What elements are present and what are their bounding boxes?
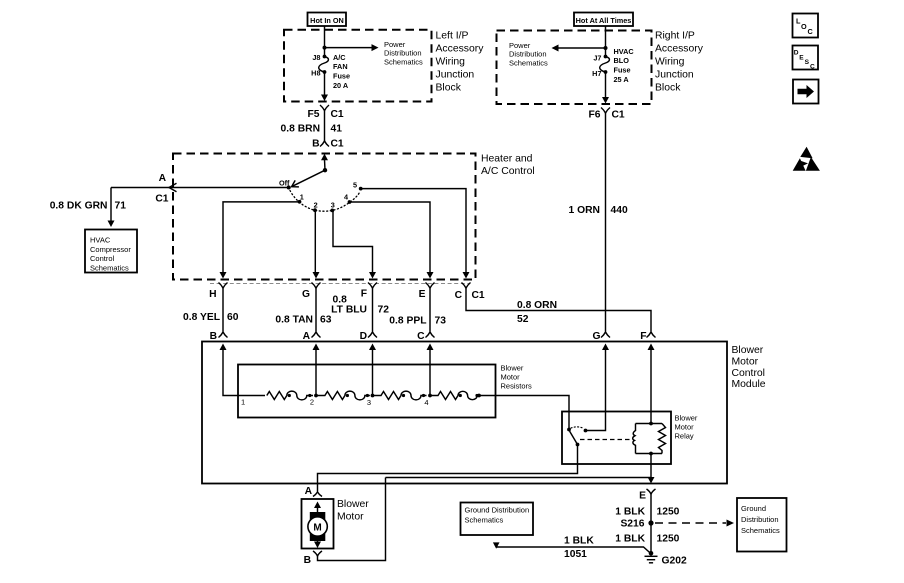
- svg-text:Hot In ON: Hot In ON: [310, 16, 344, 25]
- svg-text:Right I/PAccessoryWiringJuncti: Right I/PAccessoryWiringJunctionBlock: [655, 31, 704, 94]
- svg-text:GroundDistributionSchematics: GroundDistributionSchematics: [741, 504, 780, 535]
- wire branch to power distribution: [558, 47, 606, 49]
- wire from Hot In ON to fuse: [324, 26, 326, 57]
- svg-text:A: A: [303, 331, 311, 342]
- svg-text:4: 4: [344, 193, 349, 202]
- power label Hot In ON: [308, 13, 347, 27]
- arrow down: [108, 221, 115, 228]
- svg-text:0.8 TAN: 0.8 TAN: [275, 315, 313, 326]
- wire module B to resistor tap 1: [223, 349, 265, 396]
- svg-text:Left I/PAccessoryWiringJunctio: Left I/PAccessoryWiringJunctionBlock: [436, 31, 485, 94]
- svg-text:C: C: [810, 63, 815, 70]
- legend icon DESC: [793, 46, 819, 71]
- svg-text:Heater andA/C Control: Heater andA/C Control: [481, 154, 535, 177]
- svg-text:52: 52: [517, 314, 529, 325]
- connector F5 C1 fork: [320, 105, 329, 111]
- svg-text:0.8 ORN: 0.8 ORN: [517, 300, 557, 311]
- svg-text:1 BLK: 1 BLK: [615, 507, 645, 518]
- arrow up inside module at D: [369, 344, 376, 351]
- svg-text:Off: Off: [279, 178, 290, 187]
- connector fork module A: [312, 332, 321, 338]
- svg-text:M: M: [313, 522, 321, 533]
- arrow up inside module at B: [220, 344, 227, 351]
- switch wiper arm: [293, 170, 326, 186]
- wire F to module D: [372, 288, 374, 332]
- relay actuation dashed link: [580, 439, 631, 441]
- svg-text:S: S: [805, 59, 810, 66]
- wire from Hot At All Times to fuse: [605, 26, 607, 57]
- junction node: [323, 46, 327, 50]
- svg-text:E: E: [419, 289, 426, 300]
- legend icon LOC: [793, 14, 819, 38]
- svg-text:C1: C1: [331, 109, 344, 120]
- svg-text:B: B: [210, 331, 217, 342]
- ground distribution schematics box middle: [461, 503, 534, 536]
- node resistor output: [477, 394, 481, 398]
- svg-text:A: A: [159, 173, 167, 184]
- svg-text:E: E: [639, 491, 646, 502]
- wire to HVAC compressor schematics: [111, 188, 174, 222]
- wire fuse to block edge: [324, 72, 326, 95]
- relay coil: [633, 424, 666, 454]
- wire E to module C: [429, 288, 431, 332]
- arrow down at F exit: [369, 272, 376, 279]
- power label Hot At All Times: [574, 13, 633, 27]
- svg-text:BlowerMotor: BlowerMotor: [337, 499, 369, 522]
- switch contact Off: [287, 186, 291, 190]
- arrow down at left end: [493, 542, 500, 548]
- svg-text:HVACBLOFuse25 A: HVACBLOFuse25 A: [614, 47, 635, 84]
- svg-text:A/CFANFuse20 A: A/CFANFuse20 A: [333, 53, 350, 90]
- right I/P junction block dashed box: [497, 31, 652, 105]
- svg-text:O: O: [801, 22, 807, 31]
- wire C to module F: [466, 288, 651, 332]
- svg-text:G202: G202: [662, 556, 687, 567]
- ground distribution schematics box right: [737, 498, 787, 552]
- arrow down at E exit: [427, 272, 434, 279]
- svg-text:Ground DistributionSchematics: Ground DistributionSchematics: [465, 506, 530, 525]
- blower motor: [302, 499, 334, 549]
- svg-text:60: 60: [227, 312, 239, 323]
- svg-text:0.8 DK GRN: 0.8 DK GRN: [50, 201, 108, 212]
- switch pivot node: [323, 168, 327, 172]
- node tap 3: [371, 394, 375, 398]
- svg-text:1: 1: [300, 193, 304, 202]
- svg-text:Hot At All Times: Hot At All Times: [576, 16, 632, 25]
- svg-text:4: 4: [424, 398, 428, 407]
- svg-text:D: D: [360, 331, 367, 342]
- legend icon forward arrow: [793, 80, 819, 104]
- svg-text:C1: C1: [155, 194, 168, 205]
- connector fork E: [426, 283, 435, 289]
- svg-text:5: 5: [353, 180, 357, 189]
- wire contact 2 to G: [314, 210, 316, 272]
- connector B C1 fork: [320, 141, 329, 147]
- svg-text:1: 1: [241, 398, 245, 407]
- arrow right: [372, 44, 379, 51]
- wire motor return to E: [386, 477, 652, 479]
- wire entry to switch pivot: [324, 160, 327, 171]
- svg-text:B: B: [312, 138, 319, 149]
- arrow down at block exit: [321, 95, 328, 102]
- wire module A to resistor tap 2: [315, 349, 317, 396]
- svg-text:1 BLK: 1 BLK: [564, 536, 594, 547]
- fuse A/C FAN 20A: [319, 55, 329, 74]
- wire module G to relay contact: [587, 349, 606, 431]
- svg-text:2: 2: [310, 398, 314, 407]
- svg-text:G: G: [302, 289, 310, 300]
- svg-text:PowerDistributionSchematics: PowerDistributionSchematics: [509, 41, 548, 68]
- arrow down at block exit: [602, 97, 609, 104]
- wire motor B return to module: [318, 478, 386, 561]
- arrow up inside module at F: [648, 344, 655, 351]
- svg-text:1 BLK: 1 BLK: [615, 534, 645, 545]
- wire coil bottom to E: [650, 454, 652, 478]
- dashed wire S216 to ground distribution: [655, 522, 726, 524]
- switch contact 2: [313, 208, 317, 212]
- node coil bottom: [649, 452, 653, 456]
- ESD warning symbol: [793, 147, 820, 171]
- arrow right to ground distribution box: [727, 520, 735, 527]
- node tap 2: [314, 394, 318, 398]
- svg-text:J8: J8: [312, 53, 320, 62]
- svg-text:H8: H8: [311, 68, 320, 77]
- svg-text:F: F: [640, 331, 646, 342]
- connector fork F: [368, 283, 377, 289]
- svg-text:C: C: [417, 331, 425, 342]
- svg-text:C: C: [455, 290, 463, 301]
- wire contact 5 to C: [361, 189, 466, 272]
- wire contact 4 to E: [350, 202, 431, 272]
- svg-text:C1: C1: [331, 138, 344, 149]
- wire resistor output to relay: [479, 396, 569, 429]
- svg-text:72: 72: [378, 305, 390, 316]
- svg-text:HVACCompressorControlSchematic: HVACCompressorControlSchematics: [90, 236, 131, 273]
- node tap 4: [428, 394, 432, 398]
- relay contact from resistors: [567, 428, 571, 432]
- connector fork motor A: [313, 484, 322, 497]
- arrow left at heater box exit A: [169, 183, 177, 192]
- svg-text:B: B: [304, 555, 311, 566]
- wire G to module A: [315, 288, 317, 332]
- svg-text:1 ORN: 1 ORN: [569, 205, 600, 216]
- svg-text:41: 41: [331, 124, 343, 135]
- arrowhead of wiper at Off: [292, 180, 299, 187]
- switch contact 5: [359, 187, 363, 191]
- arrow up inside module at A: [313, 344, 320, 351]
- wire Off contact to connector A: [174, 187, 289, 189]
- svg-text:LT BLU: LT BLU: [331, 305, 367, 316]
- svg-text:0.8 BRN: 0.8 BRN: [281, 124, 320, 135]
- arrow left: [552, 45, 559, 52]
- wire fuse to block edge: [605, 72, 607, 98]
- switch contact 3: [330, 209, 334, 213]
- svg-text:71: 71: [115, 201, 127, 212]
- svg-text:3: 3: [367, 398, 371, 407]
- arrow down at G exit: [313, 272, 320, 279]
- connector fork C: [462, 283, 471, 289]
- connector C1 thin dashed line: [210, 283, 470, 285]
- svg-text:C: C: [808, 27, 814, 36]
- ground symbol G202: [645, 551, 658, 563]
- wire armature to module A output: [318, 445, 578, 484]
- arrow up inside module at C: [427, 344, 434, 351]
- switch contact 4: [348, 200, 352, 204]
- connector fork module D: [368, 332, 377, 338]
- svg-text:440: 440: [611, 205, 628, 216]
- svg-text:BlowerMotorResistors: BlowerMotorResistors: [501, 364, 533, 391]
- svg-text:0.8 PPL: 0.8 PPL: [389, 316, 426, 327]
- svg-text:1051: 1051: [564, 549, 587, 560]
- heater and A/C control dashed box: [173, 154, 476, 280]
- resistor segment 3: [373, 391, 427, 400]
- connector fork module F: [647, 332, 656, 338]
- connector fork module G: [601, 332, 610, 338]
- svg-text:H7: H7: [592, 69, 601, 78]
- svg-text:J7: J7: [593, 53, 601, 62]
- svg-text:0.8 YEL: 0.8 YEL: [183, 312, 220, 323]
- connector fork module C: [426, 332, 435, 338]
- wire contact 1 to H: [223, 202, 300, 272]
- junction node: [604, 46, 608, 50]
- arrow down at C exit: [463, 272, 470, 279]
- svg-text:G: G: [592, 331, 600, 342]
- svg-text:F6: F6: [588, 110, 600, 121]
- relay travel dotted line: [571, 427, 584, 429]
- svg-text:BlowerMotorControlModule: BlowerMotorControlModule: [732, 345, 766, 390]
- wire 1 BLK 1051 to ground schematics: [497, 547, 651, 554]
- wire module D to resistor tap 3: [372, 349, 374, 396]
- connector fork module B: [219, 332, 228, 338]
- svg-text:F5: F5: [307, 109, 319, 120]
- svg-text:63: 63: [320, 315, 332, 326]
- splice S216: [648, 520, 653, 525]
- svg-text:1250: 1250: [657, 534, 680, 545]
- resistor segment 4: [430, 391, 480, 399]
- svg-text:3: 3: [331, 201, 335, 210]
- node coil top: [649, 422, 653, 426]
- connector fork motor B: [313, 551, 322, 556]
- wire F6 down to module connector G: [605, 113, 607, 332]
- arrow down inside module at E: [648, 477, 655, 484]
- HVAC compressor control schematics box: [85, 230, 137, 273]
- wire module F to relay coil: [650, 349, 652, 424]
- connector F6 C1 fork: [601, 108, 610, 114]
- svg-text:A: A: [305, 486, 313, 497]
- relay contact from G: [584, 429, 588, 433]
- wire branch to power distribution: [325, 47, 373, 49]
- switch travel dotted arc: [290, 191, 360, 212]
- switch contact 1: [298, 200, 302, 204]
- svg-text:C1: C1: [612, 110, 625, 121]
- resistor segment 1: [267, 391, 313, 400]
- svg-text:2: 2: [314, 201, 318, 210]
- svg-text:BlowerMotorRelay: BlowerMotorRelay: [675, 414, 698, 441]
- wire F5 to B: [324, 111, 326, 142]
- svg-text:PowerDistributionSchematics: PowerDistributionSchematics: [384, 40, 423, 67]
- arrow up inside module at G: [602, 344, 609, 351]
- connector fork G: [312, 283, 321, 289]
- svg-text:C1: C1: [472, 290, 485, 301]
- fuse HVAC BLD 25A: [600, 55, 610, 74]
- connector fork H: [219, 283, 228, 289]
- svg-text:D: D: [794, 50, 799, 57]
- blower motor relay box: [562, 412, 671, 465]
- connector fork E: [647, 489, 656, 494]
- left I/P junction block dashed box: [284, 30, 432, 102]
- wire E to ground G202: [650, 494, 652, 555]
- svg-text:H: H: [209, 289, 216, 300]
- relay armature arm: [570, 431, 578, 445]
- svg-text:1250: 1250: [657, 507, 680, 518]
- svg-text:73: 73: [435, 316, 447, 327]
- svg-text:S216: S216: [620, 519, 644, 530]
- relay armature pivot: [576, 443, 580, 447]
- svg-text:F: F: [361, 289, 367, 300]
- blower motor resistors box: [238, 365, 496, 418]
- blower motor control module box: [202, 342, 727, 484]
- arrow down at H exit: [220, 272, 227, 279]
- wire module C to resistor tap 4: [429, 349, 431, 396]
- wire H to module B: [222, 288, 224, 332]
- svg-text:E: E: [799, 54, 804, 61]
- wire contact 3 to F: [333, 210, 373, 272]
- resistor segment 2: [316, 391, 370, 400]
- arrow up at heater box top entry: [321, 154, 328, 161]
